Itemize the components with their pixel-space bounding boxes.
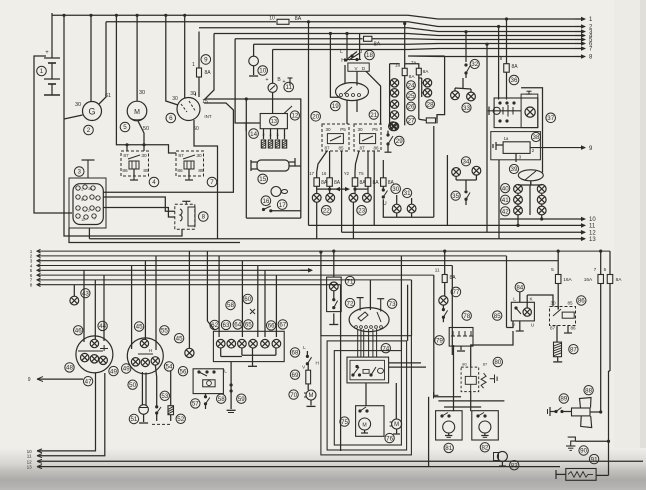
label circle 4 bbox=[149, 177, 159, 187]
wire bus1 to generator top bbox=[90, 15, 92, 101]
wire 90 junction from x608.5 bbox=[575, 371, 610, 475]
svg-text:+: + bbox=[282, 79, 285, 85]
label circle 87 bbox=[569, 345, 578, 354]
svg-text:11: 11 bbox=[27, 454, 32, 459]
svg-text:84: 84 bbox=[516, 284, 523, 291]
svg-text:1: 1 bbox=[81, 188, 83, 192]
wire block74 to motor 75 bbox=[365, 383, 367, 406]
lamp 23a bbox=[349, 193, 358, 202]
svg-text:57: 57 bbox=[192, 401, 199, 408]
wire bus1 vertical x116.4 to relay7 87 bbox=[116, 15, 176, 153]
label circle 5 bbox=[120, 122, 130, 132]
svg-text:8: 8 bbox=[30, 283, 33, 288]
svg-text:39: 39 bbox=[511, 166, 518, 173]
input bus lines 1-8 left labels bbox=[30, 249, 33, 288]
label circle 67 bbox=[278, 320, 287, 329]
svg-text:12: 12 bbox=[27, 459, 33, 464]
svg-text:90: 90 bbox=[580, 448, 587, 455]
component 90 bracket bbox=[566, 437, 575, 450]
label circle 10 bbox=[258, 66, 268, 76]
wire y402.3 link bbox=[438, 400, 504, 402]
lamp 22a bbox=[312, 193, 321, 202]
wire drop x433.8b bbox=[433, 275, 435, 397]
wire heater links right bbox=[389, 362, 421, 364]
headlamp 45 internal H bbox=[138, 348, 153, 354]
svg-text:10: 10 bbox=[259, 68, 266, 75]
lamp 41 bbox=[514, 195, 523, 204]
fuse 36 bbox=[500, 56, 518, 72]
svg-text:37: 37 bbox=[547, 115, 554, 122]
svg-text:87: 87 bbox=[178, 153, 184, 159]
wires relay 86 bbox=[557, 326, 572, 343]
wire drop x145.4 to headlamp 45 bbox=[144, 261, 146, 339]
svg-text:H: H bbox=[316, 361, 319, 366]
heater control box 74 outer bbox=[347, 357, 389, 383]
svg-text:11: 11 bbox=[81, 218, 85, 222]
lamp 31a bbox=[392, 204, 401, 213]
label circle 49 bbox=[122, 364, 131, 373]
arrow terminal 2 bbox=[575, 24, 593, 31]
lamp 77 bbox=[439, 296, 448, 305]
fuse column 7/16A x600.7 bbox=[584, 250, 604, 413]
headlamp 44 internal bar bbox=[78, 345, 108, 351]
wire switch18 to relay 21 bbox=[366, 71, 381, 124]
label circle 81 bbox=[444, 443, 453, 452]
label circle 11 bbox=[284, 82, 294, 92]
wires connector 3 to component 8 bbox=[103, 197, 175, 211]
svg-text:9: 9 bbox=[28, 377, 31, 383]
label circle 54 bbox=[164, 362, 173, 371]
wire input 10 bbox=[27, 373, 96, 454]
label circle 27 bbox=[407, 116, 416, 125]
lamps 34 pair bbox=[452, 168, 461, 177]
connector block 3 bbox=[69, 178, 106, 228]
label circle 52 bbox=[176, 414, 185, 423]
wire switch box to dimmer bbox=[356, 71, 358, 85]
svg-text:29: 29 bbox=[396, 138, 403, 145]
wire drop x406.6 to ring2 bbox=[407, 285, 409, 341]
wire bus 6 (top) bbox=[254, 43, 581, 46]
svg-text:74: 74 bbox=[382, 345, 389, 352]
svg-text:1a: 1a bbox=[504, 136, 509, 141]
wire bus1 to ignition switch 30 bbox=[184, 15, 186, 98]
horn motor 16/17 bbox=[271, 187, 288, 197]
label circle 48 bbox=[65, 363, 74, 372]
device 10 (horn button) bbox=[249, 44, 259, 75]
ignition switch assembly 73 ellipse bbox=[349, 308, 389, 332]
fuse 8A at x=383.3 bbox=[381, 178, 387, 187]
svg-text:16: 16 bbox=[322, 171, 327, 176]
lamp col-left 4 bbox=[390, 111, 398, 119]
wire input bus 3 (bottom) bbox=[37, 259, 558, 263]
svg-text:16A: 16A bbox=[563, 277, 572, 283]
svg-text:23: 23 bbox=[358, 208, 365, 215]
wire input bus 2 (bottom) bbox=[37, 254, 507, 258]
label circle 40 bbox=[501, 184, 510, 193]
wires lamps 31 up bbox=[396, 195, 398, 204]
svg-text:30: 30 bbox=[325, 127, 331, 132]
svg-text:14: 14 bbox=[250, 131, 257, 138]
label circle 91 bbox=[589, 454, 598, 463]
wire bus 4 (top) bbox=[214, 34, 581, 36]
relay 56 box bbox=[193, 369, 227, 394]
switch 77 below bbox=[442, 305, 448, 322]
svg-text:8A: 8A bbox=[374, 41, 381, 47]
svg-text:L: L bbox=[340, 49, 343, 55]
lamp 44 right bbox=[99, 356, 107, 364]
svg-text:8A: 8A bbox=[204, 70, 211, 76]
svg-text:8A: 8A bbox=[409, 74, 416, 80]
svg-text:2: 2 bbox=[88, 209, 90, 213]
svg-text:5: 5 bbox=[604, 267, 607, 273]
wire starter 50 to relay 4 bbox=[138, 121, 144, 151]
wiper park contacts bbox=[498, 91, 532, 122]
horn contact switch bbox=[262, 206, 301, 212]
switch 18 terminal box bbox=[348, 63, 369, 71]
wire drop x452.3 bbox=[451, 266, 453, 356]
svg-text:63: 63 bbox=[223, 322, 230, 329]
svg-text:46: 46 bbox=[75, 328, 82, 335]
wire bus to fuse 1a bbox=[404, 24, 406, 69]
switch with U label bbox=[382, 186, 388, 207]
lamp col-left 5 bbox=[390, 122, 398, 130]
svg-text:62: 62 bbox=[211, 322, 218, 329]
lamps 33 pair bbox=[451, 91, 460, 100]
wire ring1 left edge extension bbox=[320, 252, 322, 336]
wire connector 3 bottom drop bbox=[88, 228, 90, 239]
wire ring2 heater routing bbox=[327, 341, 407, 450]
label circle 89 bbox=[559, 394, 568, 403]
svg-text:25: 25 bbox=[408, 93, 415, 100]
relay 80 dashed box bbox=[461, 362, 488, 392]
svg-text:5: 5 bbox=[123, 124, 127, 131]
wire bus4 to ignition 15 via x214 bbox=[204, 34, 214, 101]
ammeter 11 bbox=[265, 50, 281, 114]
label circle 35 bbox=[451, 191, 460, 200]
svg-text:88: 88 bbox=[585, 387, 592, 394]
label circle 23 bbox=[357, 206, 367, 216]
svg-text:69: 69 bbox=[292, 372, 299, 379]
svg-text:49: 49 bbox=[123, 366, 130, 373]
svg-text:45: 45 bbox=[136, 324, 143, 331]
wires dimmer down to relays bbox=[346, 100, 348, 124]
label circle 19 bbox=[331, 101, 341, 111]
wire side marker up bbox=[188, 251, 190, 348]
svg-text:10: 10 bbox=[589, 217, 596, 223]
fuse 8A at x=316.7 bbox=[314, 178, 320, 187]
label circle 68 bbox=[290, 348, 299, 357]
wire y407 link bbox=[444, 406, 481, 408]
svg-text:P5: P5 bbox=[372, 127, 378, 132]
label circle 45 bbox=[134, 322, 143, 331]
label circle 28 bbox=[426, 100, 435, 109]
svg-text:91: 91 bbox=[591, 456, 598, 463]
label circle 1 bbox=[37, 66, 47, 76]
label circle 65 bbox=[244, 320, 253, 329]
label circle 73 bbox=[387, 299, 396, 308]
arrow terminal 13 bbox=[580, 237, 596, 244]
svg-text:19: 19 bbox=[332, 103, 339, 110]
wire drop x131.6 to headlamp 45 bbox=[131, 266, 133, 350]
svg-text:48: 48 bbox=[66, 365, 73, 372]
svg-text:P5: P5 bbox=[340, 127, 346, 132]
wire motor feed x470.7 bbox=[470, 392, 472, 412]
wiper assembly 37 inner box bbox=[521, 94, 538, 128]
arrow terminal 6 bbox=[575, 41, 593, 48]
svg-text:+: + bbox=[265, 77, 268, 83]
label circle 29 bbox=[394, 136, 404, 146]
svg-text:34: 34 bbox=[463, 159, 470, 166]
distributor outputs 14 bbox=[262, 129, 286, 139]
svg-text:+: + bbox=[45, 50, 49, 56]
lamp 64 bbox=[238, 339, 247, 348]
lamp 45 right bbox=[151, 357, 159, 365]
lamp 43 bbox=[70, 296, 79, 305]
wire bus 1 (top) bbox=[52, 15, 581, 19]
wire bus1 to generator vertical bbox=[63, 15, 65, 119]
svg-text:55: 55 bbox=[161, 328, 168, 335]
svg-text:81: 81 bbox=[445, 445, 452, 452]
svg-text:L: L bbox=[513, 297, 516, 302]
heater control box 74 inner bbox=[350, 360, 385, 380]
wiper assembly 37 outer box bbox=[494, 98, 538, 128]
label circle 72 bbox=[345, 298, 354, 307]
ground under relay 7 bbox=[185, 176, 193, 180]
wire input bus 1 (bottom) bbox=[37, 249, 610, 253]
svg-text:17: 17 bbox=[309, 171, 314, 176]
lamp col-left 1 bbox=[390, 79, 398, 87]
svg-text:22: 22 bbox=[323, 208, 330, 215]
wire bus1 down to starter M bbox=[136, 15, 138, 101]
svg-text:76: 76 bbox=[386, 435, 393, 442]
label circle 55 bbox=[160, 326, 169, 335]
svg-text:11: 11 bbox=[285, 84, 292, 91]
svg-text:Y2: Y2 bbox=[344, 171, 350, 176]
svg-text:8A: 8A bbox=[616, 277, 623, 283]
label circle 2 bbox=[84, 125, 94, 135]
resistor 69 bbox=[302, 363, 310, 390]
fuse column 5/8A x610 bbox=[604, 251, 623, 371]
wiper gear shaft bbox=[488, 105, 521, 117]
horn switch bbox=[548, 407, 572, 416]
label circle 33 bbox=[462, 103, 471, 112]
wires lamps 34 bbox=[456, 175, 476, 190]
fuse 52 hatched bbox=[168, 406, 174, 415]
label circle 6 bbox=[166, 113, 176, 123]
wires at 85 bbox=[516, 292, 553, 331]
label circle 77 bbox=[451, 287, 461, 297]
arrow input 9 bbox=[28, 377, 83, 383]
svg-text:85: 85 bbox=[567, 301, 573, 306]
wire input bus 4 (bottom) bbox=[37, 264, 452, 268]
fuse 9 with label circle 9 bbox=[201, 55, 211, 65]
label circle 74 bbox=[381, 344, 390, 353]
fuse 1a bbox=[395, 63, 415, 81]
wiper motor lamp symbol bbox=[525, 107, 535, 117]
wire to switch 32 bbox=[465, 32, 467, 62]
fuse 7a bbox=[405, 60, 430, 75]
wires lamps down to return bus bbox=[316, 202, 318, 239]
svg-text:13: 13 bbox=[589, 237, 596, 243]
svg-text:56: 56 bbox=[180, 368, 187, 375]
wire y144.8 to relay4 87 bbox=[126, 145, 128, 151]
svg-text:5: 5 bbox=[81, 198, 83, 202]
svg-text:52: 52 bbox=[177, 416, 184, 423]
wire routing around wiper right bbox=[521, 88, 542, 173]
wires lamps 40-42 to returns bbox=[516, 215, 543, 227]
label circle 84 bbox=[515, 283, 524, 292]
relay 20 bbox=[322, 124, 349, 151]
svg-text:M: M bbox=[309, 393, 314, 399]
svg-text:85: 85 bbox=[338, 146, 344, 151]
wire bus 5 (top) bbox=[235, 38, 362, 40]
svg-text:17: 17 bbox=[279, 202, 286, 209]
horn 88 body bbox=[572, 398, 603, 428]
arrow mid terminal on bus 5 bbox=[300, 268, 313, 273]
ground bracket left of motors bbox=[434, 392, 439, 399]
side marker lamp bbox=[185, 348, 194, 357]
svg-text:30: 30 bbox=[196, 153, 202, 159]
svg-text:78: 78 bbox=[463, 313, 470, 320]
svg-text:85: 85 bbox=[494, 313, 501, 320]
svg-text:38: 38 bbox=[533, 134, 540, 141]
svg-text:21: 21 bbox=[370, 112, 377, 119]
fuse 10 8A on bus 2 bbox=[277, 19, 289, 24]
headlight unit 45 big circle bbox=[127, 338, 163, 374]
svg-text:30: 30 bbox=[141, 153, 147, 159]
arrow terminal 8 bbox=[575, 54, 593, 61]
wires from headlamp 45 down to bulb 51 bbox=[141, 372, 143, 406]
lamp col-right 1 bbox=[423, 79, 431, 87]
heater resistor 91 bbox=[556, 469, 596, 481]
label circle 71 bbox=[345, 276, 354, 285]
label circle 50 bbox=[128, 380, 137, 389]
wire horn to enclosure right bbox=[289, 165, 301, 167]
wire generator 61 terminal up bbox=[99, 22, 106, 104]
wire input bus 8 (bottom) bbox=[37, 283, 341, 287]
lamp 41b bbox=[537, 195, 546, 204]
label circle 31 bbox=[403, 188, 412, 197]
wire bus 8 (top) bbox=[408, 55, 581, 58]
arrow terminal 11 bbox=[580, 223, 596, 230]
lamp 67 bbox=[272, 339, 281, 348]
ground bracket right of 80 bbox=[490, 375, 497, 384]
label circle 22 bbox=[322, 206, 332, 216]
component 8 (flasher coil) bbox=[175, 204, 195, 229]
lamp inside 85 bbox=[523, 308, 531, 316]
wire bus 7 (top) bbox=[273, 49, 581, 50]
lamp 44 top bbox=[90, 339, 98, 347]
svg-text:30: 30 bbox=[88, 187, 92, 191]
wire 38 down to gauge bbox=[515, 153, 517, 162]
label circle 30 bbox=[391, 184, 401, 194]
starter motor M 5 bbox=[127, 90, 147, 121]
wire drop x95.3 to headlamp 44 bbox=[94, 280, 96, 339]
svg-text:86: 86 bbox=[373, 146, 379, 151]
svg-text:80: 80 bbox=[462, 362, 467, 367]
lamp 42b bbox=[537, 206, 546, 215]
ground column x231 with contacts bbox=[227, 362, 236, 413]
wire input bus 6 (bottom) bbox=[37, 273, 434, 277]
svg-text:T5: T5 bbox=[359, 171, 365, 176]
wire long vertical x433.8 bbox=[433, 126, 435, 217]
svg-text:30: 30 bbox=[172, 96, 178, 102]
svg-text:33: 33 bbox=[463, 105, 470, 112]
svg-text:27: 27 bbox=[408, 118, 415, 125]
svg-text:40: 40 bbox=[502, 185, 509, 192]
label circle 38 bbox=[531, 132, 540, 141]
wiper motor 81 box bbox=[436, 411, 463, 440]
svg-text:12: 12 bbox=[589, 231, 596, 237]
lamp 22b bbox=[326, 193, 335, 202]
switch 29 bbox=[385, 131, 394, 153]
horizontal fuse 28 bbox=[419, 116, 437, 123]
svg-text:M: M bbox=[362, 423, 366, 429]
svg-text:77: 77 bbox=[452, 289, 459, 296]
steering lock 85 box bbox=[511, 297, 534, 328]
antenna mast of connector 3 bbox=[82, 160, 95, 178]
svg-text:V: V bbox=[354, 66, 357, 71]
lamp box 71/72 bbox=[327, 277, 342, 312]
wire x428.6 to wiper motors bbox=[428, 397, 430, 440]
switch 53 bbox=[155, 365, 161, 421]
ground under 87 bbox=[553, 357, 562, 362]
switch 72 inside box bbox=[332, 291, 337, 309]
wires into 73 bbox=[357, 280, 385, 312]
wire bus to switch 18 verticals bbox=[346, 34, 348, 59]
label circle 43 bbox=[81, 289, 90, 298]
fuse 77 11/8A bbox=[435, 268, 456, 283]
svg-text:U: U bbox=[531, 323, 534, 328]
svg-text:86: 86 bbox=[578, 298, 585, 305]
label circle 36 bbox=[509, 75, 519, 85]
label circle 49a bbox=[109, 366, 118, 375]
lamp column wires bbox=[518, 181, 542, 215]
svg-text:75: 75 bbox=[341, 419, 348, 426]
lamp row box bbox=[213, 331, 284, 361]
fuel gauge 39 bbox=[518, 170, 543, 185]
lamp 42 bbox=[514, 206, 523, 215]
svg-text:66: 66 bbox=[268, 323, 275, 330]
svg-text:87: 87 bbox=[359, 146, 365, 151]
label circle 25 bbox=[407, 91, 416, 100]
ground under 51 bbox=[139, 422, 148, 424]
junction bar under fuses bbox=[317, 186, 368, 193]
wire return 10 (y219) bbox=[500, 218, 581, 220]
svg-text:13: 13 bbox=[27, 465, 33, 470]
label circle 42 bbox=[501, 207, 510, 216]
svg-text:15: 15 bbox=[202, 99, 208, 105]
fuse 8A at x=329.6 bbox=[327, 178, 333, 187]
wire connector 3 outer drop bbox=[69, 228, 240, 243]
label circle 70 bbox=[289, 390, 298, 399]
svg-text:73: 73 bbox=[389, 301, 396, 308]
wire fuse 1a down bbox=[404, 76, 406, 126]
svg-text:60: 60 bbox=[244, 296, 251, 303]
label circle 66 bbox=[266, 321, 275, 330]
arrow terminal 5 bbox=[575, 37, 593, 44]
arrow terminal 1 bbox=[575, 17, 593, 24]
label circle 78 bbox=[462, 311, 471, 320]
arrow terminal 4 bbox=[575, 33, 593, 40]
horn 15 body bbox=[251, 158, 295, 171]
pin header 79 box bbox=[449, 328, 473, 352]
svg-text:64: 64 bbox=[234, 322, 241, 329]
svg-text:31: 31 bbox=[404, 190, 411, 197]
svg-text:59: 59 bbox=[238, 396, 245, 403]
arrow terminal 3 bbox=[575, 29, 593, 36]
wire bus3 to relay86 bbox=[557, 307, 559, 310]
